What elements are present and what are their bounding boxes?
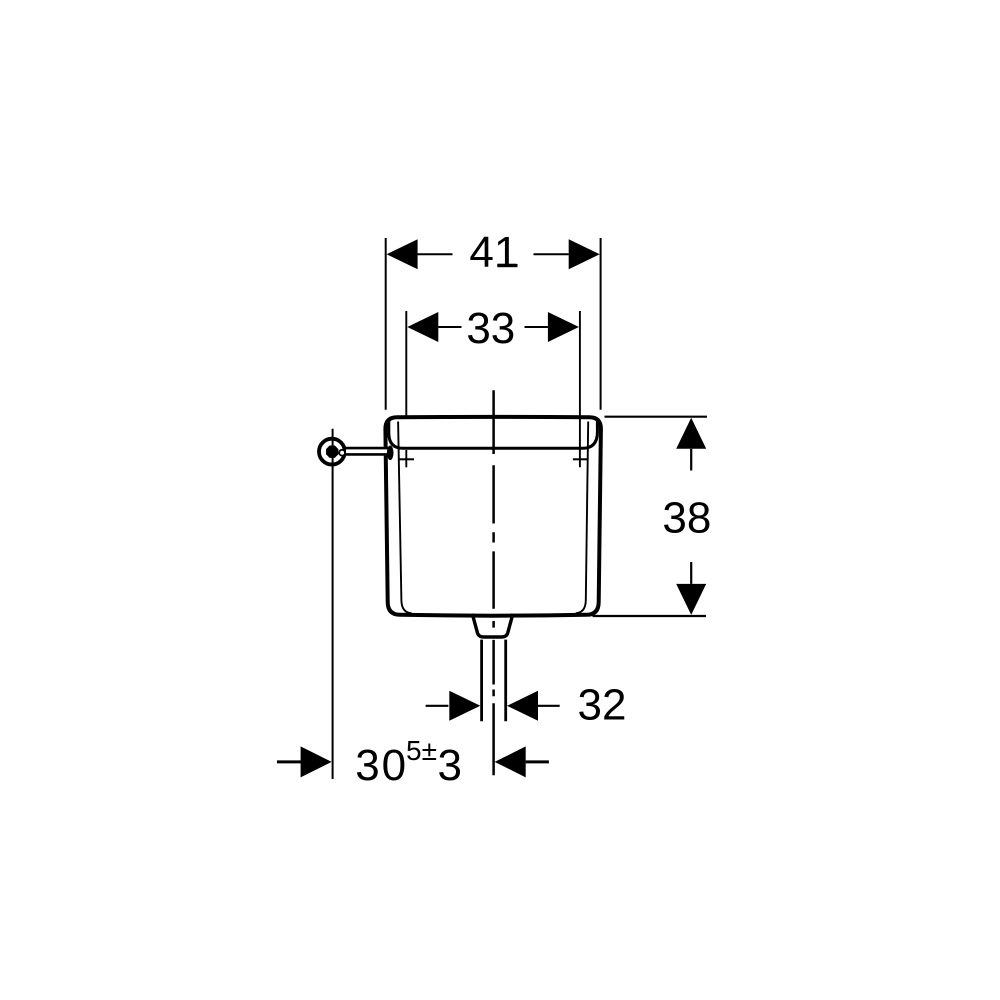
dimension 41 right tail line	[534, 253, 569, 255]
float valve connection vertical line	[332, 429, 334, 779]
dimension 33 right tail line	[525, 326, 548, 328]
svg-text:38: 38	[662, 494, 711, 543]
svg-text:32: 32	[578, 680, 627, 729]
float valve small ring joint	[339, 450, 345, 456]
dimension 30 right tail line	[526, 760, 549, 763]
dimension 41 right arrow	[569, 239, 600, 269]
dimension 33 right arrow	[548, 312, 579, 342]
svg-text:33: 33	[466, 304, 515, 353]
dimension 30 left arrow	[301, 746, 332, 777]
lever arm bushing ellipse	[387, 446, 394, 461]
lever arm lower line	[345, 453, 390, 456]
dimension 32 right tail line	[538, 705, 560, 707]
cistern inner rim curve (basin opening)	[389, 421, 598, 449]
dimension 33 left tick	[400, 458, 415, 460]
dimension 33 left arrow	[407, 312, 438, 342]
dimension 30 right arrow	[495, 746, 526, 777]
dimension 41 left arrow	[387, 239, 418, 269]
dimension 33 left extension line lower segment	[405, 450, 407, 467]
digit 1 foot serif	[498, 264, 518, 267]
dimension 41 left tail line	[418, 253, 453, 255]
lever arm white interior (cuts tank wall)	[346, 447, 390, 456]
lever arm upper line	[345, 447, 390, 450]
svg-text:5±: 5±	[406, 735, 437, 766]
dimension 38 top arrow	[676, 418, 706, 449]
dimension 32 left arrow	[449, 691, 480, 721]
dimension 33 left extension line upper segment	[405, 311, 407, 416]
dimension 38 bottom extension line	[593, 615, 707, 617]
float valve outer circle	[319, 439, 345, 465]
inner wall right	[576, 422, 589, 614]
dimension 33 right tick	[573, 458, 588, 460]
vertical center line (dash-dot)	[492, 390, 495, 775]
dimension 33 right extension line	[579, 311, 581, 467]
dimension 41 right extension line	[600, 238, 602, 410]
dimension 38 top tail line	[690, 449, 692, 471]
dimension 32 right arrow	[507, 691, 538, 721]
inner wall left	[398, 422, 411, 614]
dimension 38 bottom tail line	[690, 562, 692, 584]
dimension 32 left tail line	[426, 705, 449, 707]
cistern tank outer outline	[385, 417, 601, 616]
dimension 41 left extension line	[385, 238, 387, 410]
dimension 30 left tail line	[277, 760, 302, 763]
svg-text:3: 3	[438, 741, 462, 790]
dimension 38 bottom arrow	[676, 584, 706, 615]
svg-text:30: 30	[355, 741, 408, 790]
dimension 38 top extension line	[605, 416, 708, 418]
float valve center blob	[326, 446, 338, 458]
flush valve outlet trapezoid	[472, 614, 513, 637]
flush pipe left line	[480, 640, 483, 722]
flush pipe right line	[504, 640, 507, 722]
dimension 33 left tail line	[438, 326, 461, 328]
svg-text:41: 41	[469, 228, 518, 277]
